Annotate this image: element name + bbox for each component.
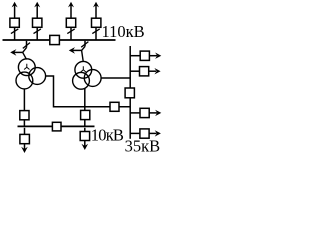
T1 LV lead wire [23, 89, 25, 111]
T2 MV link wire to 35kV bus [101, 77, 130, 79]
10kV feeder F2 arrow down [82, 144, 89, 150]
T2 LV lead wire lower [84, 120, 86, 127]
10kV feeder F2 breaker [80, 132, 89, 141]
35kV feeder B1 breaker [140, 51, 149, 60]
35kV feeder B2 wire right [149, 70, 156, 72]
35kV feeder B4 breaker [140, 129, 149, 138]
35kV feeder B3 wire right [149, 112, 157, 114]
T1 MV link wire to 35kV bus [45, 76, 129, 107]
110kV busbar [3, 39, 116, 41]
svg-text:35кВ: 35кВ [125, 137, 161, 156]
10kV feeder F2 wire [84, 128, 86, 132]
feeder W3 wire [70, 4, 72, 18]
35kV feeder B4 wire right [149, 132, 156, 134]
35kV feeder B3 arrow right [155, 110, 161, 116]
breaker Q3 [66, 18, 75, 27]
feeder W4 lower wire [95, 27, 97, 39]
10kV feeder F1 wire [24, 128, 26, 135]
T2 tap jog [82, 46, 85, 50]
10kV feeder F1 breaker [20, 134, 30, 143]
feeder W3 lower wire [70, 27, 72, 39]
feeder W1 lower wire [14, 27, 16, 39]
feeder W3 arrow [68, 2, 74, 8]
transformer T1 LV winding [16, 72, 33, 89]
svg-text:110кВ: 110кВ [102, 22, 145, 41]
35kV feeder B3 breaker [140, 108, 149, 117]
transformer T2 feeder wire [84, 41, 86, 47]
breaker on T1 LV lead [20, 111, 29, 120]
35kV busbar [129, 46, 131, 139]
transformer T2 MV winding [84, 70, 101, 87]
10kV busbar [18, 125, 95, 127]
transformer T1 HV winding [18, 59, 35, 76]
T1 HV star mark [24, 64, 29, 70]
35kV feeder B1 arrow right [155, 53, 161, 59]
T1 lead to winding [23, 52, 27, 59]
T2 tap arrow left [69, 47, 75, 54]
bus-tie breaker Q0 [50, 35, 60, 44]
svg-text:10кВ: 10кВ [91, 126, 124, 145]
35kV feeder B1 wire [130, 55, 140, 57]
feeder W4 wire [95, 4, 97, 18]
disconnector slash T1 [23, 43, 30, 49]
35kV feeder B3 wire [130, 112, 140, 114]
35kV feeder B2 arrow right [154, 68, 160, 74]
transformer T2 HV winding [75, 61, 92, 78]
T2 tap wire [71, 49, 82, 51]
35kV feeder B4 wire [130, 132, 140, 134]
disconnector slash QS2 [34, 29, 41, 34]
disconnector slash T2 [81, 42, 88, 48]
breaker Q4 [92, 18, 101, 27]
transformer T1 MV winding [29, 68, 46, 85]
35kV feeder B2 breaker [140, 67, 149, 76]
10kV feeder F1 arrow down [21, 147, 28, 153]
T1 tap jog [23, 48, 27, 53]
feeder W1 arrow [12, 2, 18, 8]
breaker Q1 [10, 18, 19, 27]
breaker on T2 LV lead [81, 110, 90, 119]
sectionalizer on 35kV bus [125, 88, 134, 98]
transformer T2 LV winding [73, 72, 90, 89]
T1 tap arrow left [10, 49, 16, 56]
T2 lead to winding [82, 50, 84, 62]
35kV feeder B2 wire [130, 70, 139, 72]
disconnector slash QS3 [67, 29, 74, 34]
feeder W2 arrow [34, 2, 40, 8]
T1 LV lead wire lower [23, 120, 25, 127]
35kV feeder B4 arrow right [155, 130, 161, 136]
T2 HV star mark [81, 66, 86, 72]
sectionalizer on 10kV bus [52, 122, 61, 131]
10kV feeder F1 wire lower [24, 144, 26, 150]
feeder W1 wire [14, 4, 16, 18]
feeder W2 lower wire [36, 27, 38, 39]
T1 tap wire [12, 51, 23, 53]
feeder W2 wire [36, 4, 38, 18]
breaker Q2 [33, 18, 42, 27]
breaker on T1 MV link [110, 102, 119, 111]
transformer T1 feeder wire [26, 41, 28, 48]
disconnector slash QS1 [11, 29, 18, 34]
disconnector slash QS4 [92, 29, 99, 34]
35kV feeder B1 wire right [149, 55, 157, 57]
T2 LV lead wire [84, 88, 86, 111]
feeder W4 arrow [93, 2, 99, 8]
10kV feeder F2 wire lower [84, 141, 86, 148]
